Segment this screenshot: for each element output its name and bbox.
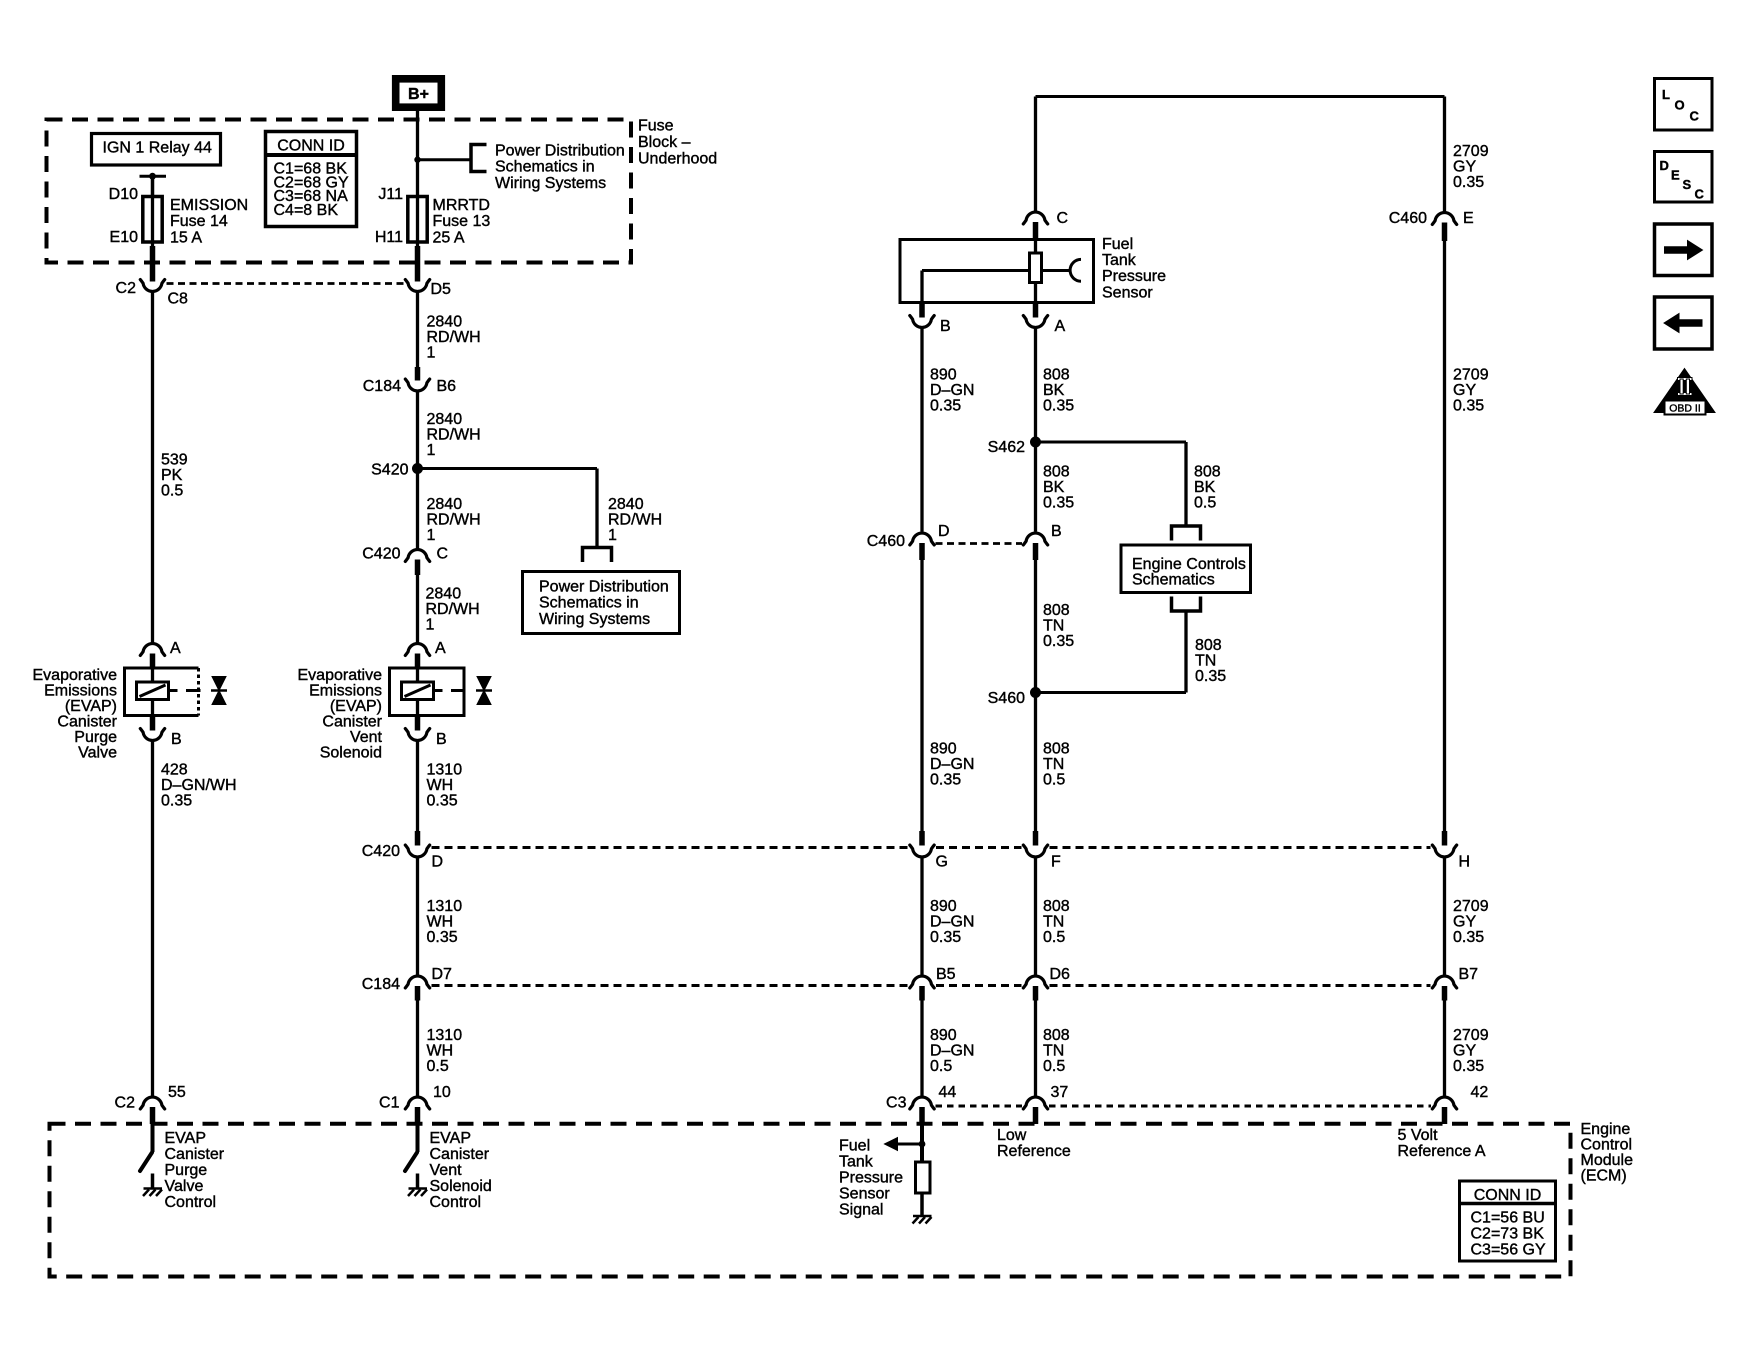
svg-text:55: 55: [168, 1084, 186, 1101]
svg-text:Schematics: Schematics: [1132, 572, 1215, 589]
svg-text:2709: 2709: [1453, 1027, 1489, 1044]
svg-text:B: B: [1051, 523, 1062, 540]
svg-text:Pressure: Pressure: [839, 1170, 903, 1187]
svg-text:25 A: 25 A: [433, 229, 465, 246]
svg-text:(ECM): (ECM): [1581, 1167, 1627, 1184]
svg-text:S460: S460: [988, 690, 1025, 707]
svg-text:Power Distribution: Power Distribution: [539, 579, 669, 596]
svg-text:1310: 1310: [427, 1027, 463, 1044]
svg-text:1: 1: [426, 617, 435, 634]
svg-text:808: 808: [1194, 464, 1221, 481]
svg-text:Evaporative: Evaporative: [298, 667, 383, 684]
svg-text:EVAP: EVAP: [430, 1130, 472, 1147]
svg-text:C2: C2: [115, 1095, 136, 1112]
svg-text:EMISSION: EMISSION: [170, 197, 248, 214]
svg-text:TN: TN: [1043, 1043, 1064, 1060]
svg-text:Canister: Canister: [430, 1146, 490, 1163]
svg-text:0.5: 0.5: [1043, 772, 1065, 789]
svg-text:Control: Control: [165, 1194, 217, 1211]
svg-text:Vent: Vent: [430, 1162, 463, 1179]
svg-text:808: 808: [1195, 637, 1222, 654]
svg-text:RD/WH: RD/WH: [427, 329, 481, 346]
svg-text:C: C: [437, 546, 449, 563]
svg-text:E10: E10: [110, 229, 139, 246]
svg-text:808: 808: [1043, 602, 1070, 619]
svg-text:1: 1: [427, 345, 436, 362]
svg-text:Fuse 13: Fuse 13: [433, 213, 491, 230]
svg-text:C4=8 BK: C4=8 BK: [274, 202, 339, 219]
svg-text:CONN ID: CONN ID: [1474, 1187, 1542, 1204]
svg-text:C2=73 BK: C2=73 BK: [1471, 1226, 1545, 1243]
svg-text:D–GN: D–GN: [930, 382, 974, 399]
svg-text:Valve: Valve: [78, 744, 117, 761]
svg-text:Schematics in: Schematics in: [495, 159, 595, 176]
svg-text:A: A: [170, 640, 181, 657]
svg-text:B: B: [436, 731, 447, 748]
svg-text:Solenoid: Solenoid: [430, 1178, 492, 1195]
svg-text:1: 1: [427, 527, 436, 544]
svg-text:37: 37: [1051, 1084, 1069, 1101]
svg-text:0.35: 0.35: [161, 793, 192, 810]
svg-text:H11: H11: [375, 229, 403, 246]
svg-text:Block –: Block –: [638, 134, 691, 151]
svg-text:TN: TN: [1195, 653, 1216, 670]
svg-text:C420: C420: [362, 546, 400, 563]
svg-text:0.5: 0.5: [1043, 1058, 1065, 1075]
svg-text:G: G: [936, 854, 948, 871]
svg-text:GY: GY: [1453, 1043, 1476, 1060]
svg-text:E: E: [1671, 168, 1680, 183]
svg-text:0.35: 0.35: [427, 793, 458, 810]
svg-text:J11: J11: [378, 186, 403, 203]
svg-text:WH: WH: [427, 777, 454, 794]
svg-text:Emissions: Emissions: [309, 682, 382, 699]
svg-text:808: 808: [1043, 367, 1070, 384]
svg-text:RD/WH: RD/WH: [427, 512, 481, 529]
svg-text:D7: D7: [432, 966, 453, 983]
svg-text:Solenoid: Solenoid: [320, 744, 382, 761]
svg-text:Purge: Purge: [74, 729, 117, 746]
svg-text:D–GN: D–GN: [930, 1043, 974, 1060]
svg-text:15 A: 15 A: [170, 229, 202, 246]
svg-text:TN: TN: [1043, 756, 1064, 773]
svg-text:L: L: [1662, 87, 1670, 102]
svg-text:2840: 2840: [427, 496, 463, 513]
svg-text:Tank: Tank: [839, 1154, 874, 1171]
svg-text:C: C: [1690, 109, 1700, 124]
svg-text:2840: 2840: [426, 586, 462, 603]
svg-text:1: 1: [427, 442, 436, 459]
svg-text:890: 890: [930, 898, 957, 915]
svg-text:A: A: [1055, 318, 1066, 335]
svg-text:0.35: 0.35: [1043, 398, 1074, 415]
svg-text:Fuel: Fuel: [1102, 236, 1133, 253]
svg-text:0.35: 0.35: [930, 398, 961, 415]
svg-text:A: A: [435, 640, 446, 657]
svg-text:B: B: [940, 318, 951, 335]
svg-text:TN: TN: [1043, 914, 1064, 931]
svg-text:5 Volt: 5 Volt: [1398, 1127, 1439, 1144]
svg-text:D6: D6: [1050, 966, 1071, 983]
svg-text:RD/WH: RD/WH: [426, 601, 480, 618]
svg-text:Reference A: Reference A: [1398, 1143, 1486, 1160]
svg-text:Wiring Systems: Wiring Systems: [539, 611, 650, 628]
svg-text:Fuse: Fuse: [638, 118, 674, 135]
svg-text:0.35: 0.35: [930, 929, 961, 946]
svg-text:TN: TN: [1043, 618, 1064, 635]
svg-text:Canister: Canister: [57, 713, 117, 730]
svg-text:EVAP: EVAP: [165, 1130, 207, 1147]
svg-text:808: 808: [1043, 464, 1070, 481]
svg-text:Control: Control: [430, 1194, 482, 1211]
svg-text:B6: B6: [437, 378, 457, 395]
svg-text:2840: 2840: [608, 496, 644, 513]
svg-text:C1: C1: [379, 1095, 400, 1112]
svg-text:1: 1: [608, 527, 617, 544]
svg-text:C8: C8: [168, 291, 189, 308]
svg-text:BK: BK: [1194, 479, 1216, 496]
svg-text:0.5: 0.5: [427, 1058, 449, 1075]
svg-text:C1=56 BU: C1=56 BU: [1471, 1210, 1545, 1227]
svg-text:CONN ID: CONN ID: [277, 138, 345, 155]
svg-text:0.5: 0.5: [1194, 495, 1216, 512]
svg-text:1310: 1310: [427, 762, 463, 779]
svg-text:RD/WH: RD/WH: [427, 427, 481, 444]
svg-text:Reference: Reference: [997, 1143, 1071, 1160]
svg-text:0.35: 0.35: [1453, 929, 1484, 946]
svg-text:Signal: Signal: [839, 1202, 883, 1219]
svg-text:C: C: [1695, 187, 1705, 202]
svg-text:H: H: [1459, 854, 1471, 871]
svg-text:O: O: [1675, 98, 1685, 113]
svg-text:0.35: 0.35: [1453, 1058, 1484, 1075]
svg-text:Canister: Canister: [165, 1146, 225, 1163]
svg-text:E: E: [1463, 210, 1474, 227]
svg-text:C: C: [1057, 210, 1069, 227]
svg-text:B7: B7: [1459, 966, 1479, 983]
svg-text:D: D: [432, 854, 444, 871]
svg-text:C420: C420: [362, 843, 400, 860]
svg-text:OBD II: OBD II: [1669, 403, 1701, 415]
svg-text:BK: BK: [1043, 479, 1065, 496]
svg-text:0.5: 0.5: [1043, 929, 1065, 946]
svg-text:Power Distribution: Power Distribution: [495, 142, 625, 159]
svg-text:Pressure: Pressure: [1102, 268, 1166, 285]
svg-text:S420: S420: [371, 462, 408, 479]
svg-text:0.35: 0.35: [930, 772, 961, 789]
svg-text:Purge: Purge: [165, 1162, 208, 1179]
svg-text:1310: 1310: [427, 898, 463, 915]
svg-text:42: 42: [1471, 1084, 1489, 1101]
svg-text:C460: C460: [1389, 210, 1427, 227]
svg-text:GY: GY: [1453, 382, 1476, 399]
svg-text:C184: C184: [362, 976, 400, 993]
svg-text:(EVAP): (EVAP): [330, 698, 382, 715]
svg-text:B+: B+: [408, 86, 429, 103]
svg-text:890: 890: [930, 741, 957, 758]
svg-text:MRRTD: MRRTD: [433, 197, 490, 214]
svg-text:Valve: Valve: [165, 1178, 204, 1195]
svg-text:Schematics in: Schematics in: [539, 595, 639, 612]
svg-text:WH: WH: [427, 914, 454, 931]
svg-text:2840: 2840: [427, 314, 463, 331]
svg-text:BK: BK: [1043, 382, 1065, 399]
svg-text:D–GN: D–GN: [930, 756, 974, 773]
svg-text:539: 539: [161, 452, 188, 469]
svg-text:428: 428: [161, 762, 188, 779]
svg-text:IGN 1 Relay 44: IGN 1 Relay 44: [103, 140, 212, 157]
svg-text:C2: C2: [116, 280, 137, 297]
svg-text:808: 808: [1043, 898, 1070, 915]
svg-text:Canister: Canister: [322, 713, 382, 730]
svg-text:2709: 2709: [1453, 143, 1489, 160]
svg-text:808: 808: [1043, 1027, 1070, 1044]
svg-text:0.35: 0.35: [427, 929, 458, 946]
svg-text:2709: 2709: [1453, 898, 1489, 915]
svg-text:RD/WH: RD/WH: [608, 512, 662, 529]
svg-text:GY: GY: [1453, 159, 1476, 176]
svg-text:(EVAP): (EVAP): [65, 698, 117, 715]
svg-text:Underhood: Underhood: [638, 151, 717, 168]
svg-text:Emissions: Emissions: [44, 682, 117, 699]
svg-text:WH: WH: [427, 1043, 454, 1060]
svg-text:0.5: 0.5: [930, 1058, 952, 1075]
svg-text:Evaporative: Evaporative: [33, 667, 118, 684]
svg-text:D: D: [938, 523, 950, 540]
svg-text:D–GN/WH: D–GN/WH: [161, 777, 237, 794]
svg-text:890: 890: [930, 367, 957, 384]
svg-text:D10: D10: [109, 186, 138, 203]
svg-text:10: 10: [433, 1084, 451, 1101]
svg-text:C3=56 GY: C3=56 GY: [1471, 1242, 1546, 1259]
svg-text:D: D: [1660, 158, 1669, 173]
svg-text:0.35: 0.35: [1453, 398, 1484, 415]
svg-text:Wiring Systems: Wiring Systems: [495, 175, 606, 192]
svg-text:Engine Controls: Engine Controls: [1132, 556, 1246, 573]
svg-text:PK: PK: [161, 467, 183, 484]
svg-text:S: S: [1683, 177, 1692, 192]
svg-text:2840: 2840: [427, 411, 463, 428]
svg-text:S462: S462: [988, 439, 1025, 456]
svg-text:Low: Low: [997, 1127, 1027, 1144]
svg-text:2709: 2709: [1453, 367, 1489, 384]
svg-text:Tank: Tank: [1102, 252, 1137, 269]
svg-text:C460: C460: [867, 533, 905, 550]
svg-text:D5: D5: [431, 281, 452, 298]
svg-text:D–GN: D–GN: [930, 914, 974, 931]
svg-text:Vent: Vent: [350, 729, 383, 746]
svg-text:0.35: 0.35: [1043, 633, 1074, 650]
svg-text:C3: C3: [886, 1095, 907, 1112]
svg-text:Fuse 14: Fuse 14: [170, 213, 228, 230]
svg-text:0.35: 0.35: [1043, 495, 1074, 512]
svg-text:B: B: [171, 731, 182, 748]
svg-text:GY: GY: [1453, 914, 1476, 931]
svg-text:F: F: [1051, 854, 1061, 871]
svg-text:44: 44: [939, 1084, 957, 1101]
svg-text:Fuel: Fuel: [839, 1138, 870, 1155]
svg-text:Sensor: Sensor: [839, 1186, 890, 1203]
svg-text:0.35: 0.35: [1453, 174, 1484, 191]
svg-text:C184: C184: [363, 378, 401, 395]
svg-text:808: 808: [1043, 741, 1070, 758]
svg-text:0.5: 0.5: [161, 483, 183, 500]
svg-text:B5: B5: [936, 966, 956, 983]
svg-text:Sensor: Sensor: [1102, 284, 1153, 301]
svg-text:890: 890: [930, 1027, 957, 1044]
svg-text:0.35: 0.35: [1195, 668, 1226, 685]
